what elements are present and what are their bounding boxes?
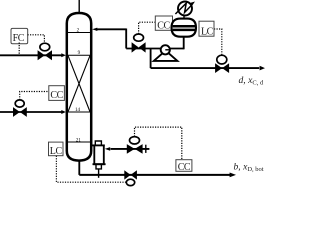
wire feed 1 line: [0, 54, 62, 56]
arrow bottoms out: [230, 173, 236, 178]
wire reflux riser: [125, 29, 127, 49]
condenser E1 circle: [178, 2, 192, 16]
reboiler E2 bottom stub: [96, 164, 101, 169]
controller CC left box: [49, 86, 65, 101]
valve V5 steam bowtie: [127, 144, 135, 154]
arrow reflux into column: [92, 28, 97, 31]
valve V4 distillate bowtie: [215, 63, 222, 73]
reboiler E2 bottom flange: [93, 163, 106, 165]
svg-text:CC: CC: [50, 90, 63, 101]
reboiler E2 top flange: [91, 144, 104, 146]
valve V6 bottoms bowtie: [124, 170, 130, 179]
signal FC to valve V1: [28, 35, 45, 43]
valve V2 bowtie: [13, 107, 20, 117]
signal valve V3 to CC top: [139, 22, 156, 34]
arrow feed 2 into column: [61, 110, 66, 114]
reflux drum D1: [172, 19, 197, 37]
wire distillate branch down: [150, 49, 152, 69]
controller LC bottom box: [49, 142, 64, 156]
valve V4 actuator circle: [217, 55, 227, 64]
wire bottoms outlet: [78, 160, 80, 175]
valve V5 actuator circle: [130, 137, 140, 144]
tray 9 line: [68, 54, 90, 56]
pump P1 tick: [165, 49, 170, 51]
signal CC bottom to valve V5: [135, 127, 182, 160]
svg-text:LC: LC: [201, 26, 214, 37]
valve V3 actuator circle: [134, 34, 144, 41]
svg-text:CC: CC: [157, 20, 170, 31]
valve V3 reflux bowtie: [132, 42, 139, 52]
signal LC top to valve V4: [214, 29, 222, 55]
arrow distillate out: [260, 66, 265, 71]
pump P1 base: [154, 53, 178, 61]
valve V1 feed bowtie: [38, 50, 45, 60]
wire distillate line: [151, 67, 260, 69]
packed bed X section: [68, 55, 90, 112]
wire vapor stub from column top: [78, 0, 80, 14]
arrow feed 1 into column: [61, 53, 66, 57]
wire reflux return into column: [97, 28, 127, 30]
pump P1 circle: [161, 45, 170, 54]
wire reflux run: [126, 48, 184, 50]
column C1 (distillation column shell): [67, 13, 91, 161]
arrow steam into reboiler: [105, 147, 110, 151]
valve V6 actuator circle below: [126, 179, 134, 185]
reboiler E2 body: [94, 145, 104, 164]
signal LC bottom to valve V6: [56, 156, 126, 183]
tray 2 line: [68, 32, 90, 34]
controller CC bottom box: [176, 160, 192, 172]
wire feed 2 line: [0, 111, 62, 113]
reboiler E2 top stub: [95, 141, 101, 145]
drum liquid level band: [173, 25, 195, 28]
valve V1 actuator circle: [40, 43, 50, 51]
wire drum outlet: [183, 37, 185, 50]
tray 21 line: [68, 141, 90, 143]
svg-text:LC: LC: [50, 146, 63, 157]
steam line end tick: [145, 145, 147, 153]
svg-text:CC: CC: [178, 162, 191, 173]
controller FC box: [11, 28, 28, 43]
wire reboiler drain to bottoms line: [98, 169, 100, 178]
wire bottoms line: [79, 174, 230, 176]
valve V2 actuator circle: [15, 100, 24, 107]
svg-text:21: 21: [76, 138, 82, 143]
controller CC top box: [155, 16, 172, 30]
controller LC top box: [199, 21, 214, 36]
signal FC to feed line: [18, 43, 20, 55]
signal CC left to valve V2: [20, 92, 49, 100]
condenser E1 zigzag arrow: [175, 3, 192, 14]
condenser stem: [183, 16, 185, 19]
svg-text:14: 14: [75, 108, 81, 113]
tray 14 line: [68, 111, 90, 113]
wire steam line: [111, 148, 150, 150]
